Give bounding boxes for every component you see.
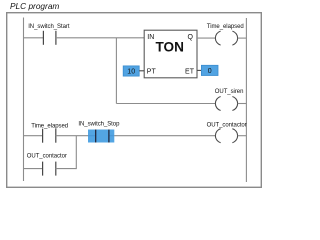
- svg-text:OUT_contactor: OUT_contactor: [27, 154, 67, 160]
- wire coil2 to rail: [238, 103, 247, 105]
- contact OUT_contactor: [27, 154, 67, 176]
- svg-text:Time_elapsed: Time_elapsed: [207, 24, 244, 30]
- wire contact to junction: [56, 168, 77, 170]
- svg-text:OUT_contactor: OUT_contactor: [207, 122, 247, 128]
- contact IN_switch_Start: [28, 24, 70, 45]
- svg-text:Q: Q: [188, 34, 194, 41]
- wire rung2 rail to contact: [24, 135, 43, 137]
- svg-text:ET: ET: [185, 68, 195, 75]
- svg-text:PT: PT: [147, 68, 157, 75]
- wire branch vertical to siren rung: [115, 38, 117, 104]
- wire coil1 to rail: [238, 37, 247, 39]
- frame border: [7, 13, 262, 188]
- value box 0 at ET: [197, 65, 218, 75]
- svg-text:10: 10: [127, 69, 135, 76]
- svg-text:Time_elapsed: Time_elapsed: [31, 123, 68, 129]
- wire rung1 rail to contact: [24, 37, 44, 39]
- timer block TON: [144, 30, 197, 78]
- wire contact to TON IN: [56, 37, 144, 39]
- svg-text:IN: IN: [147, 34, 154, 41]
- svg-text:PLC program: PLC program: [10, 1, 59, 11]
- wire coil3 to rail: [238, 135, 247, 137]
- wire siren branch horizontal: [116, 103, 215, 105]
- coil OUT_contactor: [207, 122, 247, 142]
- svg-text:IN_switch_Start: IN_switch_Start: [28, 24, 70, 30]
- wire contact to stop contact: [56, 135, 88, 137]
- coil OUT_siren: [215, 89, 244, 110]
- wire stop contact to coil3: [114, 135, 215, 137]
- svg-text:IN_switch_Stop: IN_switch_Stop: [78, 122, 120, 128]
- svg-text:TON: TON: [155, 40, 183, 55]
- contact IN_switch_Stop highlighted: [78, 122, 120, 143]
- value box 10 at PT: [123, 66, 144, 76]
- wire Q to coil: [197, 37, 215, 39]
- svg-text:0: 0: [208, 68, 212, 75]
- coil Time_elapsed: [207, 24, 244, 45]
- left power rail: [23, 18, 25, 182]
- wire branch vertical junction: [75, 136, 77, 169]
- right power rail: [245, 18, 247, 182]
- wire branch rail to contact: [24, 168, 43, 170]
- svg-text:OUT_siren: OUT_siren: [215, 89, 244, 95]
- contact Time_elapsed: [31, 123, 68, 142]
